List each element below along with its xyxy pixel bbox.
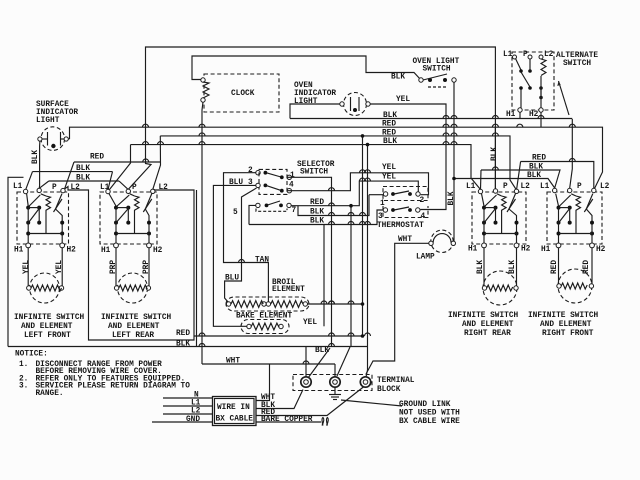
- clock box: [204, 74, 279, 112]
- svg-text:3: 3: [378, 213, 383, 221]
- svg-text:BLK: BLK: [477, 260, 485, 274]
- svg-text:L1: L1: [540, 183, 550, 191]
- svg-text:YEL: YEL: [23, 260, 31, 274]
- svg-text:AND ELEMENT: AND ELEMENT: [462, 321, 514, 329]
- svg-text:ELEMENT: ELEMENT: [272, 286, 305, 294]
- svg-text:H1: H1: [506, 111, 516, 119]
- svg-text:YEL: YEL: [303, 319, 317, 327]
- svg-text:BLK: BLK: [448, 191, 456, 205]
- trio BLK1: [481, 170, 560, 188]
- dropper x160.5 to L2 rear: [153, 136, 161, 189]
- right front element: [551, 248, 594, 303]
- svg-text:THERMOSTAT: THERMOSTAT: [377, 222, 424, 230]
- WHT rail and riser to lamp: [202, 363, 335, 365]
- svg-text:H1: H1: [468, 246, 478, 254]
- term1 wire dropper to BLK rail: [287, 177, 331, 346]
- term4 wire staircase YEL to thermostat term2: [287, 173, 428, 195]
- svg-text:LIGHT: LIGHT: [36, 117, 60, 125]
- right rear infinite switch: [466, 183, 531, 254]
- svg-text:H1: H1: [14, 247, 24, 255]
- svg-text:RED: RED: [176, 330, 190, 338]
- svg-text:BLK: BLK: [310, 209, 324, 217]
- surface light right wire to bus2: [68, 138, 69, 140]
- BLK wire 215.5 to thermostat term1: [298, 195, 369, 216]
- RED wire y162: [74, 161, 161, 163]
- svg-text:2: 2: [420, 197, 425, 205]
- svg-text:L1: L1: [466, 183, 476, 191]
- svg-text:OVEN: OVEN: [294, 82, 313, 90]
- thermostat: [378, 187, 428, 222]
- svg-text:TAN: TAN: [255, 257, 269, 265]
- svg-text:BX CABLE: BX CABLE: [216, 416, 254, 424]
- svg-text:BLOCK: BLOCK: [377, 386, 401, 394]
- svg-text:BLK: BLK: [310, 218, 324, 226]
- svg-text:GND: GND: [186, 416, 200, 424]
- svg-text:BLK: BLK: [509, 260, 517, 274]
- svg-text:RIGHT FRONT: RIGHT FRONT: [542, 330, 594, 338]
- dropper x146 jog to P rear: [128, 162, 151, 189]
- svg-text:P: P: [523, 51, 528, 59]
- terminal feeds: [305, 347, 307, 378]
- svg-text:L1: L1: [503, 51, 513, 59]
- svg-text:H2: H2: [67, 247, 77, 255]
- svg-text:AND ELEMENT: AND ELEMENT: [540, 321, 592, 329]
- left rear element: [110, 248, 151, 303]
- svg-text:P: P: [577, 183, 582, 191]
- bus2 RED: [70, 127, 603, 190]
- svg-text:5: 5: [233, 209, 238, 217]
- svg-text:PRP: PRP: [143, 260, 151, 274]
- svg-text:INFINITE SWITCH: INFINITE SWITCH: [448, 312, 519, 320]
- svg-text:BLK: BLK: [527, 172, 541, 180]
- svg-text:GROUND LINK: GROUND LINK: [399, 401, 451, 409]
- svg-text:WHT: WHT: [398, 236, 412, 244]
- wire in bx cable box: [213, 397, 257, 426]
- term7 RED wire staircase YEL to thermostat term2 top: [291, 181, 418, 206]
- surface light left wire BLK down to P front: [38, 141, 41, 188]
- trio RED right side: [521, 162, 594, 189]
- svg-text:RED: RED: [382, 121, 396, 129]
- BLK2 y181: [49, 180, 119, 182]
- svg-text:YEL: YEL: [396, 96, 410, 104]
- bus1 BLK: [290, 118, 572, 120]
- svg-text:RED: RED: [532, 155, 546, 163]
- svg-text:H2: H2: [153, 247, 163, 255]
- svg-text:SWITCH: SWITCH: [300, 169, 328, 177]
- outer big box left: [8, 177, 24, 346]
- svg-text:BARE COPPER: BARE COPPER: [261, 416, 313, 424]
- BLK1 y171.6: [33, 171, 113, 173]
- svg-text:NOTICE:: NOTICE:: [15, 351, 48, 359]
- clock coil: [201, 78, 209, 102]
- svg-text:INFINITE SWITCH: INFINITE SWITCH: [14, 314, 85, 322]
- svg-text:RED: RED: [90, 154, 104, 162]
- oven lamp: [429, 230, 456, 252]
- right rear element: [477, 248, 518, 305]
- svg-text:P: P: [503, 183, 508, 191]
- left rear infinite switch: [100, 184, 168, 255]
- svg-text:ALTERNATE: ALTERNATE: [556, 52, 598, 60]
- top rail T1: [146, 47, 496, 189]
- terminal block: [293, 375, 372, 391]
- svg-text:BX CABLE WIRE: BX CABLE WIRE: [399, 418, 460, 426]
- svg-text:P: P: [52, 184, 57, 192]
- svg-text:H2: H2: [529, 111, 539, 119]
- svg-text:L2: L2: [159, 184, 169, 192]
- wire indicator left to bus1 start: [290, 104, 340, 119]
- svg-text:CLOCK: CLOCK: [231, 90, 255, 98]
- svg-text:L2: L2: [600, 183, 610, 191]
- svg-text:4: 4: [421, 213, 426, 221]
- svg-text:WHT: WHT: [226, 358, 240, 366]
- hop bumps: [143, 116, 576, 365]
- svg-text:BLK: BLK: [76, 165, 90, 173]
- svg-text:BLK: BLK: [32, 150, 40, 164]
- svg-text:TERMINAL: TERMINAL: [377, 377, 415, 385]
- svg-text:H1: H1: [541, 246, 551, 254]
- svg-text:SWITCH: SWITCH: [423, 66, 451, 74]
- x324 bake right riser: [323, 225, 325, 327]
- svg-text:BLK: BLK: [383, 138, 397, 146]
- alt switch arrow: [559, 81, 570, 115]
- bus1 right dropper to P right-front: [570, 119, 573, 188]
- svg-text:LAMP: LAMP: [416, 254, 435, 262]
- bus4 BLK: [131, 145, 481, 190]
- svg-text:BLK: BLK: [383, 112, 397, 120]
- BLU3 wire dropper to bake left: [213, 185, 255, 326]
- svg-text:NOT USED WITH: NOT USED WITH: [399, 410, 460, 418]
- term2 wire to TAN to broil mid: [224, 173, 269, 302]
- svg-text:LEFT REAR: LEFT REAR: [112, 332, 154, 340]
- svg-text:RED: RED: [310, 199, 324, 207]
- svg-text:1.: 1.: [19, 361, 28, 369]
- OLS output BLK dropper to lamp right: [452, 82, 455, 243]
- svg-text:2: 2: [248, 167, 253, 175]
- svg-text:BLK: BLK: [315, 347, 329, 355]
- L2 collector wires (inner box): [65, 187, 194, 341]
- svg-text:LIGHT: LIGHT: [294, 98, 318, 106]
- svg-text:BLK: BLK: [391, 74, 405, 82]
- svg-text:P: P: [132, 184, 137, 192]
- clock neutral dropper to WHT rail: [202, 102, 203, 364]
- right front infinite switch: [540, 183, 610, 254]
- trio BLK2: [454, 179, 555, 189]
- svg-text:H2: H2: [596, 246, 606, 254]
- svg-text:SURFACE: SURFACE: [36, 101, 69, 109]
- surface indicator light: [38, 127, 68, 151]
- svg-text:L1: L1: [13, 183, 23, 191]
- svg-text:YEL: YEL: [382, 164, 396, 172]
- svg-text:INDICATOR: INDICATOR: [294, 90, 336, 98]
- pair droppers to terminal block right: [362, 136, 364, 336]
- top rail T2 to clock: [192, 56, 421, 80]
- BLK wire 224.5 thermostat 3: [249, 210, 383, 225]
- left front infinite switch: [13, 183, 80, 255]
- svg-text:PRP: PRP: [110, 260, 118, 274]
- alt switch H drops: [519, 112, 521, 118]
- svg-text:L2: L2: [521, 183, 531, 191]
- svg-text:RED: RED: [551, 260, 559, 274]
- svg-text:BLK: BLK: [176, 341, 190, 349]
- ground symbol: [329, 387, 341, 400]
- svg-text:H1: H1: [101, 247, 111, 255]
- left front element: [23, 248, 64, 303]
- svg-text:SWITCH: SWITCH: [563, 60, 591, 68]
- bus3 RED: [160, 136, 516, 190]
- svg-text:WIRE IN: WIRE IN: [217, 404, 250, 412]
- thermo term1 wire: [369, 194, 383, 196]
- svg-text:INDICATOR: INDICATOR: [36, 109, 78, 117]
- svg-text:AND ELEMENT: AND ELEMENT: [108, 323, 160, 331]
- svg-text:RANGE.: RANGE.: [36, 390, 64, 398]
- svg-text:AND ELEMENT: AND ELEMENT: [21, 323, 73, 331]
- broil right wire: [308, 303, 363, 305]
- svg-text:BLK: BLK: [529, 164, 543, 172]
- svg-text:RIGHT REAR: RIGHT REAR: [464, 330, 511, 338]
- oven indicator light: [340, 93, 370, 116]
- svg-text:BLK: BLK: [76, 175, 90, 183]
- svg-text:INFINITE SWITCH: INFINITE SWITCH: [528, 312, 599, 320]
- svg-text:YEL: YEL: [56, 260, 64, 274]
- svg-text:RED: RED: [382, 129, 396, 137]
- svg-text:1: 1: [380, 200, 385, 208]
- svg-text:LEFT FRONT: LEFT FRONT: [24, 332, 71, 340]
- svg-text:BLU: BLU: [225, 275, 239, 283]
- svg-text:3.: 3.: [19, 383, 28, 391]
- ground leader: [341, 400, 402, 406]
- svg-text:L2: L2: [544, 51, 554, 59]
- svg-text:YEL: YEL: [382, 174, 396, 182]
- term5 jog to BLK wire: [249, 205, 256, 224]
- svg-text:L2: L2: [71, 184, 81, 192]
- wire indicator right YEL dropper to thermostat 4: [370, 104, 446, 210]
- bus4 left end dropper to L1 rear: [110, 145, 131, 190]
- svg-text:INFINITE SWITCH: INFINITE SWITCH: [101, 314, 172, 322]
- svg-text:H2: H2: [521, 246, 531, 254]
- term3+5 diagonal BLU dropper to broil left: [225, 188, 257, 302]
- svg-text:7: 7: [292, 207, 297, 215]
